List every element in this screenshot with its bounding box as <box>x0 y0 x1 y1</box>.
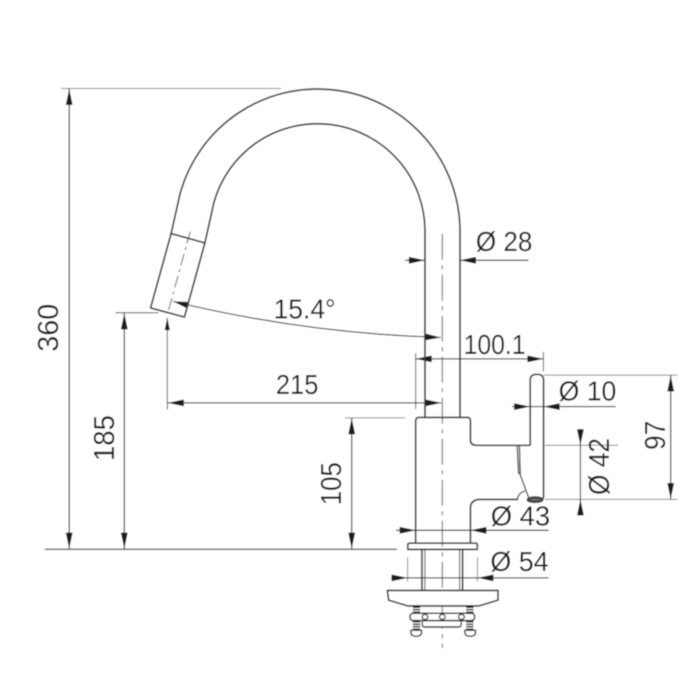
svg-text:185: 185 <box>89 415 121 461</box>
svg-text:105: 105 <box>316 462 348 505</box>
svg-text:360: 360 <box>33 304 65 352</box>
svg-text:15.4°: 15.4° <box>274 294 336 325</box>
svg-text:Ø 42: Ø 42 <box>584 438 616 495</box>
svg-text:Ø 54: Ø 54 <box>490 546 548 577</box>
svg-text:Ø 28: Ø 28 <box>476 226 533 257</box>
svg-text:Ø 43: Ø 43 <box>491 501 551 532</box>
svg-text:Ø 10: Ø 10 <box>559 375 617 406</box>
svg-text:97: 97 <box>640 421 672 450</box>
svg-text:215: 215 <box>276 369 319 400</box>
svg-text:100.1: 100.1 <box>464 329 526 360</box>
